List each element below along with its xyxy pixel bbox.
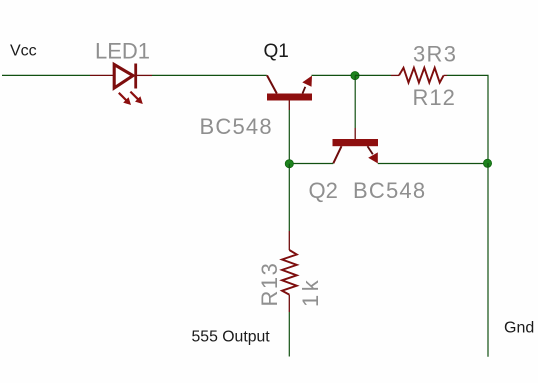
transistor Q2 left limb — [333, 146, 341, 163]
resistor R13 top lead — [288, 231, 290, 250]
wire right rail down to Gnd — [487, 163, 489, 357]
resistor R12 zigzag — [399, 68, 444, 83]
svg-text:Vcc: Vcc — [10, 43, 37, 60]
wire R13 to 555 output — [288, 312, 290, 357]
svg-text:R12: R12 — [413, 85, 456, 110]
svg-text:BC548: BC548 — [353, 178, 426, 203]
transistor Q2 base bar — [333, 139, 379, 146]
svg-text:Gnd: Gnd — [504, 320, 534, 337]
svg-text:LED1: LED1 — [95, 39, 150, 64]
node C junction dot — [483, 159, 491, 167]
wire LED cathode to Q1 — [152, 74, 267, 76]
LED LED1 cathode lead — [137, 74, 152, 76]
wire R12 to right rail corner — [447, 75, 488, 163]
LED LED1 emission arrow 1 — [119, 93, 131, 105]
resistor R12 right lead — [444, 74, 447, 76]
transistor Q1 base bar — [267, 94, 312, 101]
LED LED1 anode lead — [90, 74, 113, 76]
transistor Q1 emitter line — [303, 87, 306, 94]
transistor Q1 left limb — [267, 75, 277, 93]
svg-text:555 Output: 555 Output — [192, 329, 271, 346]
svg-text:1k: 1k — [298, 277, 323, 307]
node A junction dot — [351, 72, 359, 80]
transistor Q1 emitter arrow — [302, 76, 312, 87]
wire junction A down to Q2 — [354, 76, 356, 128]
svg-text:R13: R13 — [257, 262, 282, 307]
svg-text:Q2: Q2 — [309, 178, 338, 203]
wire Q1 emitter to junction A — [312, 74, 356, 76]
transistor Q2 emitter line — [368, 146, 373, 154]
wire Q2 emitter to node C — [378, 163, 488, 165]
resistor R13 zigzag — [282, 250, 297, 295]
wire node B to Q2 left limb — [289, 163, 333, 165]
LED LED1 triangle — [114, 65, 133, 89]
resistor R13 bottom lead — [288, 295, 290, 312]
resistor R12 left lead — [391, 74, 399, 76]
svg-text:BC548: BC548 — [200, 114, 273, 139]
wire node B down to R13 — [288, 164, 290, 231]
transistor Q2 top lead — [354, 128, 356, 139]
wire Q1 base lead down — [288, 101, 290, 111]
wire Vcc rail left segment — [2, 74, 90, 76]
LED LED1 emission arrow 2 — [130, 92, 142, 104]
transistor Q2 emitter arrow — [368, 152, 378, 163]
wire junction A to R12 — [355, 74, 391, 76]
svg-text:Q1: Q1 — [264, 41, 289, 62]
svg-text:3R3: 3R3 — [413, 42, 457, 67]
LED LED1 cathode bar — [134, 64, 137, 89]
wire Q1 base to node B — [288, 110, 290, 164]
node B junction dot — [285, 160, 293, 168]
